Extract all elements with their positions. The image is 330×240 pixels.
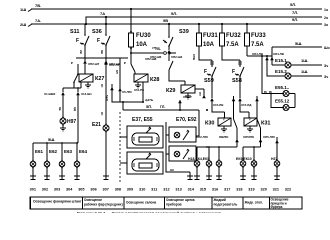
switch S59 — [204, 60, 216, 98]
relay K27 coil — [79, 74, 104, 82]
svg-text:КЛВ: КЛВ — [192, 54, 196, 61]
svg-text:9Г.: 9Г. — [100, 84, 104, 88]
lamp E63 — [59, 142, 73, 179]
wire to lamp H97 — [58, 95, 63, 118]
svg-text:311: 311 — [151, 187, 157, 191]
svg-text:F: F — [97, 38, 100, 44]
svg-text:307: 307 — [103, 187, 109, 191]
connector pin ХП2.Ш7 on S11 wire — [83, 61, 99, 67]
terminal number row — [30, 187, 292, 191]
svg-text:7В.: 7В. — [35, 3, 41, 8]
lamp Е55.1 — [262, 56, 295, 97]
svg-text:Рисунок 2.11.1 — Схема электри: Рисунок 2.11.1 — Схема электрическая сое… — [77, 210, 221, 213]
lamp Е15.2 — [267, 56, 328, 79]
connector pin Х1.ШВ2 — [44, 92, 65, 96]
bus line 3 (wire 9В) — [20, 17, 328, 27]
relay contact K28 — [131, 64, 135, 72]
svg-text:7.5А: 7.5А — [226, 42, 239, 48]
svg-text:ХЛ5ЛЮ: ХЛ5ЛЮ — [243, 135, 254, 139]
connector pins ХП2.Ш6 / ХП2.Ш4 — [150, 46, 183, 59]
svg-text:Е37, Е55: Е37, Е55 — [132, 117, 153, 123]
lamp H97 — [60, 118, 76, 125]
svg-text:7Л.: 7Л. — [292, 10, 298, 15]
connector pin Х5.ЛЮ — [105, 84, 132, 102]
wire node row under K28 — [115, 58, 144, 110]
svg-text:Е21: Е21 — [92, 122, 101, 128]
caption table — [30, 197, 302, 209]
svg-text:319: 319 — [248, 187, 254, 191]
relay contact K30 — [234, 119, 238, 128]
svg-text:ХП2.Л7: ХП2.Л7 — [109, 63, 120, 67]
lamp E64 — [74, 142, 88, 179]
svg-text:Х1.ШВ2: Х1.ШВ2 — [44, 92, 56, 96]
lamp H18 — [194, 147, 200, 179]
svg-text:Н18,ЕК4,ЕК5: Н18,ЕК4,ЕК5 — [188, 157, 209, 161]
headlamp feed line 5П — [123, 104, 208, 111]
svg-text:ГЛ.: ГЛ. — [160, 105, 165, 109]
svg-text:F: F — [76, 38, 79, 44]
svg-text:Е61: Е61 — [35, 149, 44, 154]
lamp E62 — [44, 142, 58, 179]
lamp Е55.12 — [271, 94, 295, 111]
svg-text:7Л: 7Л — [152, 46, 156, 50]
lamp group labels — [188, 157, 277, 161]
svg-text:Н97: Н97 — [67, 119, 76, 125]
svg-text:2Ш: 2Ш — [20, 22, 26, 27]
svg-text:7А: 7А — [100, 11, 105, 16]
svg-text:К29: К29 — [166, 88, 175, 94]
svg-text:Освещение фонарями штанг: Освещение фонарями штанг — [33, 199, 82, 203]
svg-text:S36: S36 — [92, 29, 102, 35]
svg-text:322: 322 — [285, 187, 291, 191]
svg-text:317: 317 — [224, 187, 230, 191]
dashed boundary — [119, 112, 121, 182]
svg-text:буфера: буфера — [271, 205, 283, 209]
svg-text:FU33: FU33 — [251, 33, 266, 39]
svg-text:Х5.ЛЮ: Х5.ЛЮ — [122, 90, 132, 94]
svg-text:Е62: Е62 — [49, 149, 58, 154]
svg-text:Х15.ЛД: Х15.ЛД — [241, 103, 252, 107]
fuse FU30 — [129, 8, 152, 53]
svg-text:ЛУ: ЛУ — [198, 92, 202, 96]
svg-text:ХЛ5.ЛЮ: ХЛ5.ЛЮ — [263, 135, 275, 139]
svg-text:ХЛ4.ЛВ: ХЛ4.ЛВ — [273, 52, 285, 56]
svg-text:Х15.ЛВ: Х15.ЛВ — [213, 103, 224, 107]
svg-text:312: 312 — [163, 187, 169, 191]
wire K27 output split — [63, 82, 81, 92]
svg-text:306: 306 — [90, 187, 96, 191]
wire FU30 down to K28 — [131, 53, 135, 74]
svg-text:К31: К31 — [261, 121, 270, 127]
svg-text:1Ш.: 1Ш. — [301, 58, 308, 63]
svg-text:318: 318 — [236, 187, 242, 191]
svg-text:Е15.1: Е15.1 — [275, 58, 287, 63]
svg-text:подогреватель: подогреватель — [214, 203, 238, 207]
K27 contact — [74, 74, 78, 82]
svg-text:303: 303 — [54, 187, 60, 191]
connector labels row under relays — [196, 135, 275, 139]
svg-text:1Ш.: 1Ш. — [301, 69, 308, 74]
connector boundary line — [76, 57, 128, 59]
svg-text:Е55.1..: Е55.1.. — [275, 85, 289, 90]
svg-text:ХП2.ЛЮ: ХП2.ЛЮ — [196, 135, 208, 139]
svg-text:S11: S11 — [70, 29, 79, 35]
svg-text:Зч: Зч — [324, 75, 328, 79]
svg-text:К27: К27 — [95, 76, 104, 82]
ground under H97 — [60, 124, 66, 131]
svg-text:ХП2.Ш6: ХП2.Ш6 — [150, 55, 162, 59]
svg-text:8Л: 8Л — [115, 70, 119, 74]
svg-text:5П.: 5П. — [146, 104, 152, 109]
connector pin Х14.Ш1 — [76, 92, 92, 96]
svg-text:FU31: FU31 — [203, 33, 218, 39]
lamp unit Е70 housing — [169, 127, 196, 142]
svg-text:9Л.: 9Л. — [292, 17, 298, 22]
wire to Е15.1 — [263, 47, 272, 94]
relay K28 coil — [134, 74, 159, 83]
switch S36 — [92, 16, 110, 62]
svg-text:301: 301 — [30, 187, 36, 191]
fuse FU32 — [220, 23, 242, 60]
svg-text:321: 321 — [273, 187, 279, 191]
svg-text:К30: К30 — [205, 121, 214, 127]
svg-text:9Е: 9Е — [58, 107, 62, 111]
svg-text:Жидк. отоп.: Жидк. отоп. — [244, 201, 263, 205]
svg-text:304: 304 — [66, 187, 73, 191]
svg-text:Освещение: Освещение — [84, 198, 102, 202]
svg-text:ЛВЛЮ: ЛВЛЮ — [219, 135, 228, 139]
wire K29 contact branch down — [198, 89, 206, 98]
connector pin ХП2.Ш1 on S36 wire — [104, 61, 120, 67]
svg-text:F: F — [204, 69, 207, 75]
svg-text:3о: 3о — [324, 23, 328, 27]
lamp EK9 — [240, 147, 246, 179]
wire K29 to S59 column — [195, 88, 204, 90]
svg-text:10А: 10А — [203, 42, 215, 48]
svg-text:Зч: Зч — [324, 64, 328, 68]
svg-text:ХП2.Ш4: ХП2.Ш4 — [171, 55, 183, 59]
svg-text:Е64: Е64 — [79, 149, 88, 154]
ground under K29 — [185, 93, 191, 99]
svg-text:3ч: 3ч — [248, 117, 252, 121]
svg-text:1о: 1о — [324, 8, 328, 12]
svg-text:309: 309 — [127, 187, 133, 191]
connector pin ХЛ6.Р — [178, 95, 191, 110]
svg-text:рабочих фар (передних): рабочих фар (передних) — [84, 203, 123, 207]
svg-text:9В: 9В — [163, 18, 168, 23]
connector pin Х15.ЛД — [238, 98, 252, 118]
node: junction of 7А drop on bus 3 — [85, 23, 87, 25]
wire left of lamp unit — [166, 122, 193, 179]
svg-text:5Ш.: 5Ш. — [295, 41, 302, 46]
ground under K31 — [247, 126, 253, 132]
svg-text:ХЛ4.ЛВ: ХЛ4.ЛВ — [252, 52, 264, 56]
svg-text:305: 305 — [78, 187, 84, 191]
svg-text:9Г.: 9Г. — [100, 112, 104, 116]
relay contact K31 — [257, 119, 261, 128]
lamp group bus H18 — [197, 146, 237, 148]
svg-text:9Л.: 9Л. — [171, 11, 177, 16]
svg-text:3ч: 3ч — [222, 117, 226, 121]
fuse FU33 — [245, 23, 267, 56]
svg-text:10А: 10А — [136, 42, 148, 48]
svg-text:Е55.12: Е55.12 — [275, 99, 290, 104]
svg-text:Освещение щитка: Освещение щитка — [166, 198, 195, 202]
relay K30 coil — [205, 118, 231, 127]
switch S11 — [70, 24, 89, 62]
svg-text:7Б.: 7Б. — [155, 46, 161, 51]
lamp EK10 — [251, 147, 257, 179]
switch S58 — [232, 60, 244, 98]
svg-text:310: 310 — [139, 187, 145, 191]
headlamp Е37 housing — [120, 126, 163, 148]
svg-text:314: 314 — [188, 187, 195, 191]
feed line to marker lamps — [247, 52, 285, 60]
svg-text:Х14.Ш1: Х14.Ш1 — [81, 92, 92, 96]
bus line 2 (wire 7А) — [86, 10, 328, 24]
line 5Ш right — [272, 41, 330, 50]
svg-text:315: 315 — [200, 187, 206, 191]
svg-text:5Л.: 5Л. — [290, 2, 296, 7]
headlamp Е55 housing — [120, 152, 163, 174]
svg-text:5Ш.: 5Ш. — [48, 137, 55, 142]
svg-text:Н9: Н9 — [170, 168, 174, 172]
bus line 1 (wire 7В) — [20, 2, 328, 12]
relay K31 coil — [244, 118, 270, 127]
svg-text:Освещение салона: Освещение салона — [126, 201, 156, 205]
svg-text:F: F — [232, 69, 235, 75]
svg-text:320: 320 — [261, 187, 267, 191]
wire S11 to K27 — [84, 64, 86, 74]
svg-text:1Ш: 1Ш — [20, 7, 26, 12]
ground under K28 — [135, 82, 141, 88]
wire right of lamp unit — [196, 110, 199, 136]
svg-text:2о: 2о — [324, 16, 328, 20]
lamp unit Е92 housing — [169, 146, 196, 161]
wire K28 output — [134, 82, 154, 102]
ground under K30 — [221, 126, 227, 132]
svg-text:ф27Б: ф27Б — [145, 98, 154, 102]
lamp H37 — [274, 137, 280, 179]
relay K29 coil — [166, 81, 195, 94]
fuse FU31 — [192, 23, 218, 61]
lamp E61 — [30, 143, 44, 179]
wire to work lamp bus — [73, 95, 78, 143]
wire 7Б with connector — [130, 46, 176, 61]
svg-text:Е15.2: Е15.2 — [275, 69, 287, 74]
svg-text:FU30: FU30 — [136, 33, 151, 39]
connector pin Х15.ЛВ — [210, 98, 224, 118]
svg-text:S39: S39 — [179, 29, 189, 35]
lamp Е15.1 — [272, 58, 328, 68]
svg-text:К28: К28 — [150, 77, 159, 83]
svg-text:316: 316 — [212, 187, 218, 191]
svg-text:308: 308 — [115, 187, 121, 191]
lamp EK4 — [206, 147, 212, 179]
relay contact K29 — [168, 53, 170, 61]
work lamp bus 5Ш — [33, 137, 78, 143]
svg-text:313: 313 — [175, 187, 181, 191]
svg-text:Х51.РЕ: Х51.РЕ — [134, 88, 144, 92]
svg-text:приборов: приборов — [166, 203, 182, 207]
lamp terminal dots — [32, 116, 278, 168]
wire S36 to E21 — [100, 62, 120, 126]
svg-text:Жидкий: Жидкий — [213, 198, 226, 202]
svg-text:7А.: 7А. — [35, 18, 41, 23]
svg-text:Шо: Шо — [324, 46, 330, 50]
ground under K27 coil — [85, 82, 91, 88]
svg-text:302: 302 — [42, 187, 48, 191]
svg-text:7.5А: 7.5А — [251, 42, 264, 48]
switch S39 — [163, 23, 189, 50]
svg-text:5АЛ: 5АЛ — [105, 95, 109, 101]
lamp E21 — [92, 122, 109, 179]
svg-text:Е70, Е92: Е70, Е92 — [176, 117, 197, 123]
lamp group bus EK9 — [243, 146, 261, 148]
lamp EK5 — [216, 147, 222, 179]
svg-text:ХП2.Ш7: ХП2.Ш7 — [88, 62, 100, 66]
svg-text:FU32: FU32 — [226, 33, 241, 39]
svg-text:Е63: Е63 — [64, 149, 73, 154]
